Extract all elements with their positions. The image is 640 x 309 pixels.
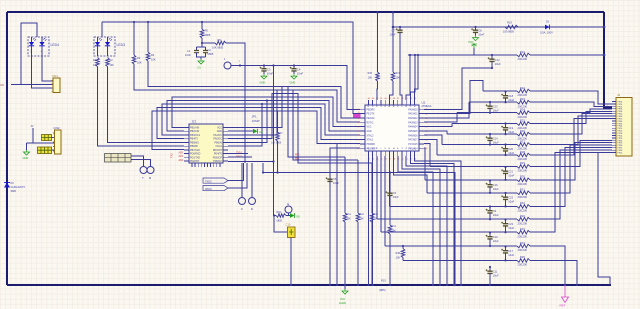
capacitor C23 xyxy=(504,218,506,220)
pin U1 right 7 xyxy=(223,149,228,151)
svg-text:R13: R13 xyxy=(374,213,379,216)
svg-text:8: 8 xyxy=(358,139,359,141)
pin U1 right 9 xyxy=(223,156,228,158)
diode D3 on frame xyxy=(4,183,10,188)
wire row2 to J2 xyxy=(530,91,612,104)
svg-text:PA6/AD6: PA6/AD6 xyxy=(408,134,418,137)
svg-text:38: 38 xyxy=(393,98,395,100)
svg-text:10K: 10K xyxy=(110,64,115,67)
capacitor C2 xyxy=(205,47,207,51)
wire flag RXD up xyxy=(228,163,247,188)
svg-text:10K 0805: 10K 0805 xyxy=(271,142,282,145)
pin U1 left 6 xyxy=(184,145,189,147)
resistor R31 xyxy=(517,191,530,195)
ground CN2 xyxy=(26,143,28,150)
pin U2 left 1 xyxy=(360,108,365,110)
svg-text:TXD0: TXD0 xyxy=(205,181,212,184)
svg-text:0805: 0805 xyxy=(277,220,283,223)
wire U2 bottom k4 row14 xyxy=(380,156,382,232)
svg-text:VREF: VREF xyxy=(559,305,566,308)
resistor R23 xyxy=(517,100,530,104)
svg-text:10uF: 10uF xyxy=(508,200,514,204)
pin U2 bottom 4 xyxy=(380,151,382,156)
resistor R18 xyxy=(401,249,405,258)
svg-text:PC7/A15: PC7/A15 xyxy=(408,143,418,146)
resistor R12 xyxy=(357,160,359,213)
svg-text:PA4/AD4: PA4/AD4 xyxy=(408,126,418,129)
LED box LED3 xyxy=(94,37,115,56)
svg-text:R26: R26 xyxy=(520,129,525,133)
svg-text:XTAL1: XTAL1 xyxy=(367,139,375,142)
svg-text:T: T xyxy=(142,176,144,180)
svg-text:C10: C10 xyxy=(286,223,291,227)
wire row1 drop k12 xyxy=(415,55,418,100)
capacitor C18 xyxy=(504,90,506,92)
ground below C3 xyxy=(261,74,267,79)
pin U1 left 8 xyxy=(184,153,189,155)
pin J2 14 xyxy=(612,132,616,134)
svg-text:PD0/RXD: PD0/RXD xyxy=(190,153,201,156)
svg-text:U2: U2 xyxy=(422,101,426,105)
junction trunk y55 xyxy=(603,54,606,57)
pin U2 bottom 5 xyxy=(384,151,386,156)
pin U2 top 5 xyxy=(384,100,386,105)
pin U2 top 10 xyxy=(405,100,407,105)
pin U2 left 5 xyxy=(360,126,365,128)
capacitor C16 xyxy=(489,179,491,181)
capacitor C7 xyxy=(399,26,401,28)
svg-text:VCC: VCC xyxy=(217,127,222,130)
svg-text:AD0: AD0 xyxy=(179,152,184,155)
svg-text:10uF: 10uF xyxy=(493,274,499,278)
capacitor C1 xyxy=(197,43,206,51)
svg-text:C8: C8 xyxy=(478,29,482,33)
pin U1 left 5 xyxy=(184,141,189,143)
fuse F2 xyxy=(38,147,52,154)
capacitor C11 xyxy=(489,266,491,268)
svg-text:JP1: JP1 xyxy=(252,115,258,119)
junction frame x377 xyxy=(376,11,378,13)
pin U1 right 1 xyxy=(223,127,228,129)
svg-text:R33: R33 xyxy=(520,227,525,231)
wire U2 right p3 xyxy=(424,102,469,118)
svg-text:R10: R10 xyxy=(277,211,282,214)
svg-text:10uF: 10uF xyxy=(493,109,499,113)
svg-text:24: 24 xyxy=(425,148,427,150)
svg-text:PB3/OC1: PB3/OC1 xyxy=(190,134,201,137)
svg-text:R25: R25 xyxy=(520,118,525,122)
wire row5 to J2 xyxy=(530,111,612,123)
svg-text:R15: R15 xyxy=(381,279,386,283)
svg-text:PA1/AD1: PA1/AD1 xyxy=(408,113,418,116)
svg-text:C20: C20 xyxy=(508,147,513,151)
net flag TXD xyxy=(203,178,228,183)
wire vcc rail y27 xyxy=(393,26,604,28)
svg-text:C5: C5 xyxy=(333,177,337,181)
resistor R30 xyxy=(517,178,530,182)
svg-text:PD6/ICP: PD6/ICP xyxy=(213,156,223,159)
LED box LED4 xyxy=(28,37,49,56)
svg-text:C1: C1 xyxy=(187,49,191,53)
svg-text:LED3: LED3 xyxy=(117,43,126,47)
svg-text:C12: C12 xyxy=(495,58,500,62)
svg-text:10K: 10K xyxy=(368,77,373,80)
resistor R4 xyxy=(147,21,149,23)
wire C10 to gnd bus xyxy=(290,238,292,286)
wire row1 drop k11 xyxy=(410,55,415,100)
pin U2 top 12 xyxy=(414,100,416,105)
svg-text:R19: R19 xyxy=(507,21,512,25)
svg-text:C19: C19 xyxy=(508,126,513,130)
svg-text:3: 3 xyxy=(358,118,359,120)
svg-text:R4: R4 xyxy=(151,53,155,57)
svg-text:10K 0805: 10K 0805 xyxy=(212,46,224,50)
wire net y172 long xyxy=(263,163,455,285)
svg-text:PB5/MO: PB5/MO xyxy=(190,141,199,144)
svg-text:C21: C21 xyxy=(508,170,513,174)
svg-text:R22: R22 xyxy=(520,86,525,90)
capacitor C20 xyxy=(504,143,506,145)
wire row R34 xyxy=(385,245,517,247)
pins U1 bottom xyxy=(192,163,220,167)
svg-text:PD3/INT: PD3/INT xyxy=(213,149,223,152)
svg-text:10nF: 10nF xyxy=(267,72,274,76)
pin U1 right 6 xyxy=(223,145,228,147)
svg-text:PA7/AD7: PA7/AD7 xyxy=(408,139,418,142)
svg-text:PE2/AC: PE2/AC xyxy=(367,117,376,120)
resistor R27 xyxy=(517,143,530,147)
wire U2 bottom k7 to row11 xyxy=(394,156,427,193)
pin J2 6 xyxy=(612,113,616,115)
capacitor C10 xyxy=(489,231,491,233)
wire LED4b to CN1 xyxy=(42,56,53,81)
pin J2 11 xyxy=(612,125,616,127)
wire row R33 xyxy=(381,231,517,233)
svg-text:20/1206: 20/1206 xyxy=(518,157,528,161)
svg-text:(0R5): (0R5) xyxy=(379,288,386,292)
pin U2 right 7 xyxy=(419,134,424,136)
svg-text:C10: C10 xyxy=(493,235,498,239)
testpoint R xyxy=(147,167,154,174)
wire R6 to node xyxy=(201,38,203,43)
resistor R11 xyxy=(344,157,346,213)
svg-text:10uF: 10uF xyxy=(508,253,514,257)
svg-text:G: G xyxy=(377,105,379,107)
wire R2 to U1 pin5 xyxy=(108,67,185,143)
svg-text:PD4/T0: PD4/T0 xyxy=(214,153,223,156)
svg-text:PD1/TXD: PD1/TXD xyxy=(190,156,200,159)
pin J2 9 xyxy=(612,120,616,122)
wire R4 to bus xyxy=(148,61,360,118)
svg-text:R34: R34 xyxy=(520,241,525,245)
svg-text:10uF: 10uF xyxy=(508,226,514,230)
svg-text:PB6/MI: PB6/MI xyxy=(190,145,198,148)
testpoint D xyxy=(249,198,256,205)
svg-text:10nF: 10nF xyxy=(478,33,484,37)
pin U2 left 10 xyxy=(360,147,365,149)
pin U2 right 2 xyxy=(419,113,424,115)
wire bus U1p4 to U2 xyxy=(157,108,360,140)
pin J2 21 xyxy=(612,149,616,151)
pin J2 12 xyxy=(612,127,616,129)
pin U2 left 6 xyxy=(360,130,365,132)
svg-text:10uF: 10uF xyxy=(493,141,499,145)
pin U2 bottom 7 xyxy=(393,151,395,156)
svg-text:R12: R12 xyxy=(360,213,365,216)
svg-text:R14: R14 xyxy=(392,225,397,228)
svg-text:R28: R28 xyxy=(520,150,525,154)
ground below C8 xyxy=(473,36,479,41)
svg-text:M: M xyxy=(406,105,408,107)
pin U1 right 4 xyxy=(223,138,228,140)
resistor R35 xyxy=(517,259,530,263)
wire U2 right p9 xyxy=(424,144,430,167)
wire U2 left p9 down xyxy=(337,144,360,285)
svg-text:AGND: AGND xyxy=(339,302,346,305)
resistor R16 xyxy=(377,13,379,73)
resistor R32 xyxy=(517,205,530,209)
svg-text:GND: GND xyxy=(367,131,372,133)
svg-text:20/1206: 20/1206 xyxy=(518,209,528,213)
pin U2 right 5 xyxy=(419,126,424,128)
svg-text:PB2/AIN: PB2/AIN xyxy=(190,130,199,133)
wire row R32 xyxy=(389,205,517,207)
pin U2 right 9 xyxy=(419,143,424,145)
svg-text:RST/C: RST/C xyxy=(367,122,374,124)
svg-text:D1: D1 xyxy=(546,20,550,24)
testpoint C xyxy=(239,198,246,205)
pin U2 bottom 8 xyxy=(397,151,399,156)
wire R3 to bus xyxy=(134,64,360,122)
wire row R21 to frame xyxy=(530,54,604,56)
wire LED4 feed xyxy=(21,23,37,85)
capacitor C3 xyxy=(263,64,265,66)
capacitor C6 xyxy=(389,171,391,173)
wire bus U1p2 to U2 xyxy=(167,101,360,132)
pin U1 left 1 xyxy=(184,127,189,129)
svg-text:SMB: SMB xyxy=(11,190,17,193)
pin U2 top 6 xyxy=(388,100,390,105)
pin J2 2 xyxy=(612,103,616,105)
LED LED4a xyxy=(31,37,33,42)
svg-text:10nF: 10nF xyxy=(297,72,304,76)
capacitor C17 xyxy=(504,245,506,247)
svg-text:PA3/AD3: PA3/AD3 xyxy=(408,121,418,124)
wire LED3 feed xyxy=(101,22,103,37)
svg-text:LED4: LED4 xyxy=(51,43,60,47)
svg-text:10uF: 10uF xyxy=(508,174,514,178)
LED LED3b xyxy=(107,37,109,42)
pin U2 right 3 xyxy=(419,117,424,119)
capacitor C21 xyxy=(504,166,506,168)
pin J2 4 xyxy=(612,108,616,110)
wire row R31 xyxy=(427,192,517,194)
svg-text:CN2: CN2 xyxy=(54,126,60,130)
pin U1 left 9 xyxy=(184,156,189,158)
svg-text:C9: C9 xyxy=(493,209,497,213)
svg-text:C13: C13 xyxy=(493,105,498,109)
resistor R22 xyxy=(517,89,530,93)
wire outer frame bottom xyxy=(7,284,611,286)
wire row1 drop k10 xyxy=(406,55,410,100)
wire U2 bottom k2 to gnd bus xyxy=(372,156,374,285)
capacitor C9 xyxy=(489,205,491,207)
svg-text:R31: R31 xyxy=(520,188,525,192)
wire bus U1p1 to U2 xyxy=(172,97,360,128)
pin U2 right 6 xyxy=(419,130,424,132)
svg-text:20/1206: 20/1206 xyxy=(518,93,528,97)
svg-text:C18: C18 xyxy=(508,94,513,98)
svg-text:20/1206: 20/1206 xyxy=(518,263,528,267)
svg-text:R11: R11 xyxy=(347,213,352,216)
svg-text:20/1206: 20/1206 xyxy=(518,248,528,252)
svg-text:10uF: 10uF xyxy=(508,98,514,102)
pin U1 right 2 xyxy=(223,130,228,132)
resistor R3 xyxy=(133,21,135,23)
wire U1 r9 stub xyxy=(228,156,252,158)
svg-text:5: 5 xyxy=(358,126,359,128)
svg-text:C11: C11 xyxy=(493,270,498,274)
pin U2 top 9 xyxy=(401,100,403,105)
wire U1 r4 over to U2 top xyxy=(228,94,372,164)
wire RX line into CN1 xyxy=(11,84,53,86)
resistor R34 xyxy=(517,244,530,248)
svg-text:C6: C6 xyxy=(393,191,397,195)
pin U2 left 3 xyxy=(360,117,365,119)
svg-text:R35: R35 xyxy=(520,255,525,259)
svg-text:R29: R29 xyxy=(520,161,525,165)
svg-text:G: G xyxy=(406,147,408,149)
pin J2 10 xyxy=(612,122,616,124)
pin U2 left 7 xyxy=(360,134,365,136)
resistor R29 xyxy=(517,165,530,169)
wire row11 up to J2 xyxy=(530,145,612,193)
wire U2 bottom k3 row13 xyxy=(376,156,378,219)
junction trunk y27 xyxy=(603,26,606,29)
wire U2 bottom k10 down xyxy=(406,156,447,285)
svg-text:20/1206: 20/1206 xyxy=(518,195,528,199)
wire RP1 to R xyxy=(131,160,151,167)
pin U2 bottom 11 xyxy=(409,151,411,156)
svg-text:0805: 0805 xyxy=(205,33,211,37)
resistor R20 xyxy=(517,217,530,221)
svg-text:PE0/RX: PE0/RX xyxy=(367,109,376,111)
wire row15 to bottom xyxy=(530,246,565,285)
resistor R2 xyxy=(106,58,110,67)
pin U2 right 1 xyxy=(419,108,424,110)
svg-text:VCC: VCC xyxy=(367,127,372,129)
svg-text:AD1: AD1 xyxy=(179,155,184,158)
svg-text:XTAL2: XTAL2 xyxy=(367,134,375,137)
IC U1 body xyxy=(189,124,223,163)
svg-text:VCC: VCC xyxy=(340,298,345,301)
node TP junction xyxy=(239,64,241,66)
wire outer frame top xyxy=(7,11,604,13)
svg-text:PA0/OC: PA0/OC xyxy=(213,138,222,141)
svg-text:R16: R16 xyxy=(368,72,373,75)
svg-text:M: M xyxy=(377,147,379,149)
pin J2 5 xyxy=(612,110,616,112)
pin U2 bottom 2 xyxy=(372,151,374,156)
wire row3 to J2 xyxy=(530,102,612,106)
wire row R23 xyxy=(469,101,517,103)
svg-text:10K: 10K xyxy=(396,77,401,80)
wire U1 r5 over to U2 top xyxy=(228,101,267,143)
svg-text:10K: 10K xyxy=(360,218,365,221)
wire row16 to bottom xyxy=(530,260,577,285)
pin J2 15 xyxy=(612,135,616,137)
pin J2 17 xyxy=(612,139,616,141)
svg-text:41: 41 xyxy=(380,98,382,100)
pin J2 13 xyxy=(612,130,616,132)
svg-text:4: 4 xyxy=(358,122,359,124)
wire row R24 xyxy=(457,112,517,114)
pin U1 left 3 xyxy=(184,134,189,136)
svg-text:20/1206: 20/1206 xyxy=(518,182,528,186)
svg-text:AD2: AD2 xyxy=(179,159,184,162)
pin U2 top 8 xyxy=(397,100,399,105)
diode D6 xyxy=(286,215,290,217)
wire Cnet to R10 xyxy=(273,214,275,216)
svg-text:PD0/RD: PD0/RD xyxy=(367,144,376,146)
resistor R13 xyxy=(371,163,373,213)
svg-text:20/1206: 20/1206 xyxy=(518,115,528,119)
resistor R7 xyxy=(277,111,279,132)
wire row R35 xyxy=(403,259,517,261)
svg-text:PA0/AD0: PA0/AD0 xyxy=(408,108,418,111)
pin U2 left 8 xyxy=(360,139,365,141)
pin J2 22 xyxy=(612,152,616,154)
pin J2 16 xyxy=(612,137,616,139)
svg-text:GND: GND xyxy=(290,81,296,85)
wire row R26 xyxy=(447,133,517,135)
svg-text:10K: 10K xyxy=(347,218,352,221)
svg-text:10uF: 10uF xyxy=(493,239,499,243)
pin U2 top 1 xyxy=(367,100,369,105)
svg-text:R27: R27 xyxy=(520,139,525,143)
svg-text:GND: GND xyxy=(217,130,223,133)
wire VCC stub xyxy=(473,48,475,55)
wire U2 right p6 xyxy=(424,131,447,134)
pin U1 right 5 xyxy=(223,141,228,143)
svg-text:PB1/AIN: PB1/AIN xyxy=(190,127,199,130)
wire U1 r8 stub xyxy=(228,152,248,154)
svg-text:GND: GND xyxy=(260,81,266,85)
LED LED4b xyxy=(41,37,43,42)
svg-text:10K: 10K xyxy=(396,257,401,260)
testpoint T xyxy=(140,167,147,174)
pin U1 left 7 xyxy=(184,149,189,151)
svg-text:C2: C2 xyxy=(208,48,212,52)
svg-text:PA2/AD2: PA2/AD2 xyxy=(408,117,418,120)
svg-text:PB7/SCK: PB7/SCK xyxy=(190,149,201,152)
svg-text:20/1206: 20/1206 xyxy=(518,234,528,238)
pin J2 18 xyxy=(612,142,616,144)
wire U2 bottom k11 down xyxy=(410,156,454,285)
wire F2 to CN2 xyxy=(52,149,55,151)
wire row R28 xyxy=(437,154,517,156)
wire U2 right p10 xyxy=(424,148,425,180)
resistor R21 xyxy=(517,53,530,57)
svg-text:GURA120T3: GURA120T3 xyxy=(11,186,26,189)
wire row4 to J2 xyxy=(530,109,612,113)
wire XTAL rail xyxy=(231,66,360,110)
wire U2 right p1 to C12 net xyxy=(424,68,492,109)
svg-text:VCC: VCC xyxy=(468,40,474,44)
svg-text:JUMP: JUMP xyxy=(252,119,260,123)
svg-text:PA1/OC: PA1/OC xyxy=(213,134,222,137)
wire C7 to U2 top xyxy=(400,36,402,100)
